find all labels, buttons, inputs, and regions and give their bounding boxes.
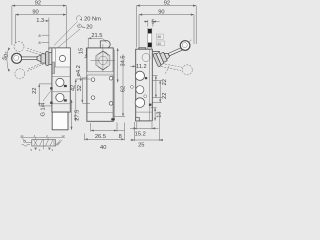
wrench icon 20: [77, 24, 92, 30]
dim 25: [131, 112, 164, 149]
holes right: [109, 76, 113, 80]
svg-text:40: 40: [100, 145, 106, 151]
plate inner vline: [55, 48, 57, 67]
dim 22 upper: [152, 76, 168, 98]
flow paths right cell parallel: [46, 140, 49, 147]
dim 40: [85, 134, 125, 151]
port circle 2: [56, 93, 64, 101]
dim 26.5: [91, 123, 117, 141]
svg-text:92: 92: [35, 1, 41, 7]
text 11.2: [130, 64, 146, 70]
centerlines: [91, 59, 115, 61]
dim 90 right: [139, 9, 194, 47]
leader lines from icons to lever joint: [54, 22, 78, 46]
right body: [131, 48, 161, 121]
top boss: [100, 41, 104, 48]
bottom ports: [43, 146, 45, 149]
svg-text:14: 14: [20, 134, 24, 138]
torque icon 20 Nm: [76, 16, 101, 23]
svg-text:12: 12: [62, 134, 66, 138]
svg-text:15.2: 15.2: [135, 132, 146, 138]
tiny spec labels: [156, 34, 164, 46]
dim 22 lower: [152, 81, 168, 103]
flow paths left cell crossed: [34, 140, 38, 147]
inner vertical: [149, 49, 151, 121]
lever centerline: [12, 57, 64, 59]
right lever ball: [180, 40, 191, 51]
dim 15.2: [130, 122, 159, 138]
detent right: [56, 140, 61, 146]
right lever dashed position: [161, 64, 192, 75]
right lever discs: [153, 43, 185, 67]
panel clamp column: [148, 28, 152, 49]
front view body: [87, 41, 115, 122]
port holes left: [91, 78, 95, 82]
internal lines: [52, 76, 70, 78]
dim 92 right: [137, 1, 197, 48]
lever actuator left: [23, 140, 25, 142]
plate lip 1.3: [49, 48, 52, 51]
dashed lever upper position: [14, 42, 47, 57]
dim 13: [150, 108, 162, 121]
valve squares: [32, 140, 56, 147]
svg-text:22: 22: [32, 88, 38, 94]
svg-text:34.5: 34.5: [120, 55, 126, 66]
dim 32: [77, 78, 90, 104]
ports: [135, 71, 144, 80]
svg-text:92: 92: [164, 1, 170, 7]
svg-text:1.3: 1.3: [36, 18, 44, 24]
svg-text:62: 62: [120, 86, 126, 92]
lever arm: [22, 57, 37, 60]
dim 15: [78, 48, 87, 58]
lever swing arc 50deg: [2, 48, 11, 72]
svg-text:11.2: 11.2: [136, 64, 147, 70]
foot bottom left: [136, 118, 140, 121]
ghost circle detent: [142, 54, 150, 62]
dim dia 4.2: [76, 65, 82, 81]
svg-text:46: 46: [157, 35, 161, 39]
pneumatic symbol 5/2 valve: [20, 134, 65, 152]
top boss right body: [139, 48, 146, 49]
dim 21.5: [88, 33, 106, 48]
dim 5 panel: [144, 19, 160, 26]
dim 34.5: [117, 48, 127, 83]
step top right: [152, 51, 160, 53]
dim 27.5: [71, 100, 81, 130]
pilot ports top line: [21, 137, 66, 139]
svg-text:20 Nm: 20 Nm: [84, 17, 101, 23]
dashed lever lower position: [15, 60, 48, 78]
dim 22 left view ports: [32, 84, 52, 106]
dim 62: [114, 54, 126, 116]
svg-text:27.5: 27.5: [74, 110, 80, 121]
outer cover line right: [114, 50, 116, 121]
hex nut: [96, 51, 110, 70]
svg-text:G 1/4: G 1/4: [41, 103, 47, 117]
svg-text:90: 90: [158, 9, 164, 15]
plate chamfer: [52, 48, 55, 51]
svg-text:ø4.2: ø4.2: [76, 65, 82, 76]
svg-text:25: 25: [138, 143, 144, 149]
lever mounting discs: [46, 52, 53, 66]
foot dark square: [111, 118, 114, 120]
lever ball knob: [12, 53, 22, 63]
dim 90 left view: [15, 9, 66, 43]
pivot circle: [59, 55, 65, 61]
dim 42: [71, 79, 91, 121]
svg-text:22: 22: [162, 79, 168, 85]
svg-text:40: 40: [157, 42, 161, 46]
port circle 1: [56, 78, 64, 86]
plate bottom line: [52, 66, 70, 68]
horizontal line: [136, 111, 153, 113]
svg-text:8: 8: [39, 41, 41, 45]
hatch block on left edge: [52, 62, 54, 74]
side view lower white section: [52, 112, 68, 130]
tiny dims 8 8: [39, 34, 49, 45]
svg-text:20: 20: [86, 24, 92, 30]
side view body: [41, 48, 71, 130]
port marks: [64, 85, 67, 87]
svg-text:15: 15: [78, 48, 84, 54]
svg-text:8: 8: [39, 34, 41, 38]
dim 8: [117, 123, 125, 141]
dim 1.3: [36, 18, 49, 48]
dim 92 left view: [12, 1, 66, 48]
svg-text:22: 22: [162, 93, 168, 99]
lever joint block: [41, 54, 46, 63]
lever cone: [37, 55, 41, 62]
internal lines: [87, 72, 113, 75]
svg-text:90: 90: [32, 9, 38, 15]
